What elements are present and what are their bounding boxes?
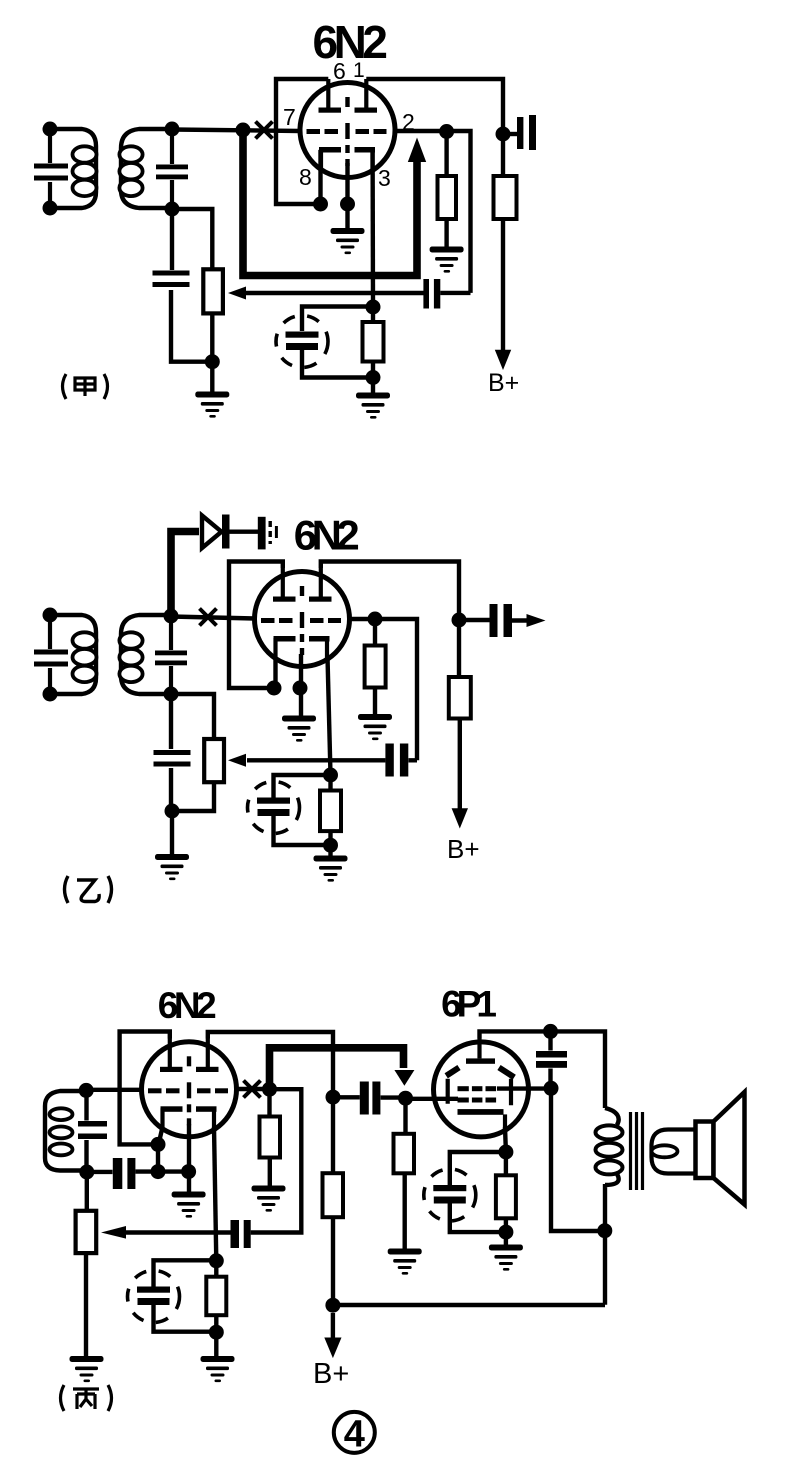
wire to B+ — [501, 219, 505, 352]
capacitor C3 series lower — [171, 209, 212, 362]
resistor R3 plate load — [501, 134, 505, 176]
svg-text:6N2: 6N2 — [313, 16, 387, 68]
transformer T2 secondary winding — [121, 615, 171, 694]
wire right cathode pin3 down — [370, 150, 375, 307]
diode D1 — [202, 516, 222, 549]
wire left cathode leg — [273, 657, 277, 688]
svg-text:3: 3 — [378, 165, 391, 191]
output transformer T3 primary — [605, 1108, 619, 1305]
thick feedback line to 6P1 grid — [270, 1048, 404, 1087]
ground under R9 — [201, 1356, 235, 1382]
svg-text:1: 1 — [353, 59, 365, 82]
input coil L1 — [45, 1091, 87, 1171]
wire grid input — [172, 130, 300, 132]
node shield junction — [181, 1164, 196, 1179]
thick wire to diode — [171, 532, 199, 617]
capacitor C15 interstage — [333, 1095, 406, 1100]
potentiometer RP volume — [203, 269, 223, 313]
wire electrolytic top — [302, 307, 373, 332]
wire right cathode pin3 down — [328, 657, 331, 775]
resistor R1 cathode — [371, 307, 375, 322]
resistor R10 6P1 grid — [403, 1098, 407, 1134]
node grid junction — [262, 1082, 277, 1097]
svg-text:6: 6 — [333, 58, 346, 84]
arrow onto potentiometer — [228, 287, 246, 300]
wire screen to B+ node — [551, 1088, 603, 1231]
wire electrolytic bottom — [450, 1204, 506, 1233]
ground under tube V3 — [172, 1192, 206, 1218]
ground under cathode resistor — [356, 393, 390, 419]
arrow feedback up — [408, 138, 426, 163]
wire left cathode leg — [159, 1127, 163, 1144]
node 6P1 cathode — [498, 1145, 513, 1160]
wire electrolytic bottom — [154, 1305, 217, 1332]
wire shield lead to ground — [299, 654, 303, 716]
capacitor C11 feedback coupling — [385, 744, 393, 777]
tube V1 6N2 — [300, 79, 395, 178]
tube V3 6N2 — [142, 1038, 237, 1137]
node cathode junction left — [267, 681, 282, 696]
wire 6P1 plate to top rail — [480, 1031, 606, 1108]
transformer T1 primary winding — [50, 129, 96, 208]
capacitor across T2 primary — [48, 615, 52, 694]
tube V4 6P1 — [434, 1038, 529, 1137]
CIRCUIT-YI — [34, 512, 546, 904]
ground under cathode resistor — [314, 856, 348, 882]
ground under tube — [331, 228, 365, 254]
node primary top — [43, 122, 58, 137]
wire to pot arrow — [124, 1230, 231, 1234]
node plate junction — [326, 1090, 341, 1105]
node cathode resistor top — [209, 1253, 224, 1268]
capacitor C14 volume coupling — [231, 1220, 240, 1248]
node shield junction — [340, 197, 355, 212]
label (yi) — [65, 876, 112, 903]
node shield junction — [293, 681, 308, 696]
node transformer bottom / B+ — [597, 1223, 612, 1238]
capacitor across L1 — [84, 1091, 88, 1172]
wire shield lead — [187, 1124, 191, 1192]
svg-text:B+: B+ — [488, 369, 519, 397]
resistor R8 plate load / B+ feed — [331, 1097, 335, 1173]
wire plate loop to cathode — [229, 562, 283, 689]
node pot bottom junction — [165, 804, 180, 819]
node secondary bottom — [164, 687, 179, 702]
node secondary top — [165, 122, 180, 137]
svg-text:8: 8 — [299, 164, 312, 190]
node cathode resistor top — [323, 768, 338, 783]
arrow B+ down — [331, 1313, 335, 1340]
node grid resistor tap — [439, 124, 454, 139]
node cathode resistor bottom — [209, 1325, 224, 1340]
wire plate-6 loop to cathode — [276, 79, 328, 204]
wire grid corner down to volume cap — [251, 1089, 302, 1232]
ground under R7 — [252, 1186, 286, 1212]
node secondary bottom — [165, 202, 180, 217]
label (jia) — [63, 374, 108, 399]
capacitor C5 feedback coupling — [423, 279, 429, 309]
transformer T3 core — [631, 1112, 643, 1190]
ground under tube — [282, 716, 316, 742]
potentiometer RP3 volume — [76, 1211, 97, 1253]
wire plate loop to cathode — [120, 1032, 170, 1145]
break mark X — [200, 609, 217, 626]
svg-text:B+: B+ — [447, 834, 480, 864]
capacitor C8 series lower — [169, 694, 173, 811]
ground under R11 — [489, 1245, 523, 1271]
wire plate to interstage node — [208, 1032, 333, 1097]
wire secondary bottom to pot — [171, 694, 214, 739]
wire electrolytic top — [154, 1260, 217, 1286]
arrow onto potentiometer — [101, 1226, 126, 1239]
node pot bottom junction — [205, 354, 220, 369]
wire pot return with cap — [247, 758, 417, 762]
wire pin2 grid output — [395, 131, 471, 293]
ground under R5 — [358, 714, 392, 740]
wire grid to 6P1 — [406, 1097, 459, 1101]
node secondary top / feedback — [164, 609, 179, 624]
wire grid input — [171, 617, 255, 619]
wire coil bottom to pot — [85, 1172, 89, 1211]
electrolytic capacitor C17 cathode bypass — [128, 1271, 180, 1323]
arrow output right — [527, 614, 546, 627]
electrolytic capacitor C6 cathode bypass — [276, 316, 328, 368]
wire grid input — [86, 1088, 141, 1092]
wire to B+ — [458, 719, 462, 811]
svg-text:6N2: 6N2 — [294, 512, 359, 559]
wire to ground — [210, 362, 214, 392]
wire electrolytic bottom — [302, 350, 373, 378]
figure number 4 circled — [334, 1412, 375, 1453]
wire diode to cap — [230, 530, 259, 534]
node cathode resistor bottom — [323, 838, 338, 853]
wire 6P1 cathode leg — [503, 1127, 508, 1152]
capacitor C9 after diode — [258, 517, 266, 550]
node 6P1 grid — [398, 1091, 413, 1106]
arrow B+ down — [495, 350, 511, 370]
resistor R11 6P1 cathode — [504, 1152, 508, 1175]
node coil top — [79, 1083, 94, 1098]
label (bing) — [61, 1385, 112, 1411]
resistor R6 plate load — [457, 620, 461, 677]
wire plate-1 to load — [366, 79, 503, 134]
node cathode resistor bottom — [366, 370, 381, 385]
node screen cap top — [543, 1024, 558, 1039]
node B+ junction — [325, 1298, 340, 1313]
resistor R5 grid — [373, 619, 377, 646]
svg-text:B+: B+ — [313, 1358, 349, 1390]
svg-text:6N2: 6N2 — [158, 985, 216, 1026]
capacitor C13 input series — [87, 1170, 113, 1174]
capacitor across T1 primary — [48, 129, 52, 208]
resistor R2 grid — [444, 132, 448, 177]
speaker — [696, 1122, 714, 1179]
electrolytic capacitor C18 6P1 bypass — [424, 1169, 476, 1221]
node screen junction — [544, 1081, 559, 1096]
svg-text:6P1: 6P1 — [441, 984, 496, 1025]
node cathode resistor top — [366, 300, 381, 315]
wire screen grid — [497, 1086, 551, 1090]
node plate junction — [452, 613, 467, 628]
wire B+ rail bottom — [333, 1303, 605, 1307]
capacitor across T2 secondary — [169, 615, 173, 694]
capacitor across T1 secondary — [170, 129, 174, 209]
capacitor C4 output coupling — [503, 132, 517, 136]
capacitor C16 screen bypass — [548, 1031, 552, 1088]
node primary bottom — [43, 687, 58, 702]
wire left cathode leg — [318, 150, 322, 204]
ground under R2 — [430, 247, 464, 273]
break mark X — [256, 122, 273, 139]
node cathode junction left — [151, 1137, 166, 1152]
arrow feedback down — [394, 1070, 414, 1086]
electrolytic capacitor C12 cathode bypass — [248, 782, 300, 834]
CIRCUIT-BING — [45, 984, 745, 1456]
node feedback takeoff — [236, 123, 251, 138]
node R11 bottom — [498, 1225, 513, 1240]
resistor R9 cathode — [214, 1261, 218, 1277]
svg-text:4: 4 — [344, 1414, 365, 1456]
ground under pot — [195, 392, 229, 418]
arrow onto potentiometer — [228, 754, 246, 767]
transformer T3 secondary — [652, 1130, 696, 1174]
node bypass rail left — [151, 1164, 166, 1179]
wire secondary bottom to pot — [172, 209, 212, 269]
thick feedback line — [243, 131, 417, 276]
wire bypass rail — [136, 1169, 189, 1173]
capacitor C10 output — [459, 618, 529, 623]
transformer T1 secondary winding — [121, 129, 172, 208]
wire shield lead to ground — [345, 163, 349, 228]
wire electrolytic top — [274, 775, 331, 798]
wire pot return with cap — [246, 291, 471, 296]
wire to ground — [170, 811, 174, 854]
wire grid output — [237, 1087, 270, 1091]
potentiometer RP2 volume — [204, 739, 224, 782]
svg-text:7: 7 — [283, 104, 296, 130]
node primary top — [43, 608, 58, 623]
node primary bottom — [43, 201, 58, 216]
wire plate to output node — [321, 562, 459, 621]
transformer T2 primary winding — [50, 615, 96, 694]
tube V2 6N2 — [255, 568, 350, 667]
arrow B+ down — [452, 808, 468, 828]
wire cathode to bypass rail — [156, 1144, 160, 1171]
ground under R10 — [388, 1249, 422, 1275]
ground under pot — [70, 1356, 104, 1382]
node cathode junction left — [313, 197, 328, 212]
node coil bottom — [79, 1165, 94, 1180]
CIRCUIT-JIA — [34, 16, 536, 419]
ground under pot — [155, 854, 189, 880]
node plate junction — [496, 127, 511, 142]
wire electrolytic top — [450, 1152, 506, 1185]
wire grid to corner — [349, 619, 417, 760]
resistor R7 grid — [267, 1089, 271, 1116]
wire right cathode pin3 down — [214, 1127, 216, 1261]
resistor R4 cathode — [328, 775, 332, 791]
node grid resistor tap — [368, 612, 383, 627]
break mark X — [244, 1081, 261, 1098]
wire electrolytic bottom — [274, 816, 331, 845]
